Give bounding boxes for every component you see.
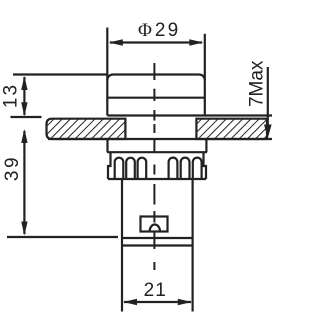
dimension 21 line bbox=[124, 301, 191, 303]
wire 39 dim bottom reference line bbox=[7, 236, 118, 238]
svg-text:13: 13 bbox=[0, 83, 21, 108]
nut upper flange right edge bbox=[205, 139, 207, 152]
nut top line bbox=[107, 151, 207, 153]
arrowhead 39 up bbox=[21, 129, 27, 143]
wire extension line above cap left (phi29) bbox=[106, 28, 108, 81]
nut rib 5 bbox=[181, 158, 190, 179]
svg-text:7Max: 7Max bbox=[247, 60, 268, 107]
nut rib 2 bbox=[126, 158, 135, 179]
wire panel bottom line full width bbox=[48, 138, 272, 140]
dimension phi29 line bbox=[110, 41, 202, 43]
arrowhead 39 down bbox=[21, 222, 27, 236]
wire extension line left (13/39 dim middle reference at panel top) bbox=[11, 116, 42, 118]
arrowhead 13 up bbox=[21, 76, 27, 90]
body step line lower bbox=[122, 244, 193, 246]
arrowhead phi29 left bbox=[109, 39, 123, 46]
svg-text:39: 39 bbox=[2, 155, 23, 181]
svg-text:Φ29: Φ29 bbox=[138, 20, 180, 41]
nut right profile with step bbox=[204, 152, 207, 179]
nut left profile with step bbox=[108, 152, 111, 179]
arrowhead 21 right bbox=[178, 299, 192, 305]
latch clip rectangle bbox=[141, 217, 168, 232]
body left side bbox=[121, 179, 123, 312]
7Max extension line vertical right bbox=[267, 67, 269, 128]
nut rib 6 bbox=[193, 158, 202, 179]
mounting panel left hatched section bbox=[47, 119, 126, 139]
nut upper flange left edge bbox=[106, 139, 108, 152]
dimension 13 line bbox=[23, 77, 25, 115]
arrowhead phi29 right bbox=[189, 39, 203, 46]
dimension 39 line bbox=[23, 131, 25, 234]
nut rib 1 bbox=[115, 158, 124, 179]
7Max arrowhead pointing down at panel bottom bbox=[264, 125, 272, 139]
nut rib 3 bbox=[138, 158, 147, 179]
lens cap middle ring line bbox=[107, 97, 205, 99]
nut rib 4 bbox=[169, 158, 178, 179]
wire extension line above cap right (phi29) bbox=[204, 34, 206, 80]
wire extension line left of cap (13 dim top reference) bbox=[13, 73, 107, 75]
body right side bbox=[192, 179, 194, 312]
latch clip semicircular notch bbox=[150, 225, 160, 232]
mounting panel right hatched section bbox=[196, 119, 267, 139]
svg-text:21: 21 bbox=[144, 280, 167, 301]
arrowhead 13 down bbox=[21, 102, 27, 116]
body step line upper bbox=[122, 237, 193, 239]
lens cap bottom line extended right as 7Max top reference bbox=[107, 114, 272, 116]
lens cap outline (phi29 head) bbox=[107, 75, 205, 116]
nut bottom line bbox=[108, 178, 206, 180]
centerline dashed axis bbox=[153, 63, 155, 270]
arrowhead 21 left bbox=[123, 299, 137, 305]
